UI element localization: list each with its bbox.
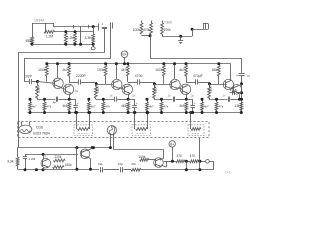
svg-text:2200P: 2200P <box>76 74 87 78</box>
svg-text:2G: 2G <box>74 89 79 93</box>
wire bottom feed <box>18 147 111 149</box>
svg-text:470: 470 <box>177 154 183 158</box>
svg-text:+: + <box>44 155 46 159</box>
svg-text:1a: 1a <box>132 94 136 98</box>
tick crossing 3 <box>88 25 90 29</box>
resistor 47k series <box>131 168 141 171</box>
transistor Tb <box>80 149 90 159</box>
wire collector Q1 <box>57 64 59 78</box>
wire top input <box>32 23 53 25</box>
svg-text:470k: 470k <box>143 28 150 32</box>
node input stage1 <box>36 80 39 83</box>
wire 220k to ground <box>162 34 164 37</box>
svg-text:B+: B+ <box>170 142 174 146</box>
terminal B+ bottom <box>169 141 175 147</box>
wire join <box>142 35 152 37</box>
wire drop b LDR3 lead <box>199 138 201 170</box>
resistor R8 220k vertical <box>162 21 164 23</box>
node on detector line <box>92 25 95 28</box>
svg-text:220k: 220k <box>164 28 171 32</box>
svg-text:+: + <box>136 102 138 106</box>
svg-text:100k: 100k <box>209 86 213 93</box>
wire output run <box>164 161 176 163</box>
tick end <box>98 23 100 30</box>
svg-text:B+: B+ <box>122 53 126 57</box>
wire Q5 emitter to Q6 base <box>178 88 183 90</box>
capacitor el lower stage2 <box>128 99 134 101</box>
LDR 1 <box>76 113 78 127</box>
svg-text:3.3k: 3.3k <box>7 160 14 164</box>
tick crossing 2 <box>80 27 82 45</box>
svg-text:47k: 47k <box>105 105 110 109</box>
wire outer feedback line <box>18 52 104 54</box>
svg-text:+: + <box>236 74 238 78</box>
svg-text:CDS: CDS <box>36 126 44 130</box>
svg-text:100k: 100k <box>155 68 163 72</box>
svg-text:1s: 1s <box>223 94 227 98</box>
wire rail corner to Q7 collector <box>230 64 232 81</box>
resistor base-gnd stage3 <box>153 87 156 99</box>
resistor R3 2.2M vertical <box>64 33 67 44</box>
capacitor el lower stage1 <box>69 99 75 101</box>
wire supply rail <box>47 63 231 65</box>
LDR sub-box 3 <box>188 125 204 136</box>
svg-text:1N34A: 1N34A <box>34 19 45 23</box>
wire lamp lead 2 run <box>114 149 164 151</box>
wire loop top right <box>192 29 208 31</box>
terminal oval <box>93 44 95 46</box>
svg-text:4k7: 4k7 <box>91 105 96 109</box>
node dots ground bus <box>64 43 67 46</box>
svg-text:4k7: 4k7 <box>62 68 68 72</box>
wire base stage3 <box>155 84 172 86</box>
resistor lower-a 4k7 stage3 <box>147 99 149 102</box>
svg-text:47k: 47k <box>163 105 168 109</box>
svg-text:4k7: 4k7 <box>149 105 154 109</box>
capacitor bypass stage1 <box>56 97 58 102</box>
svg-text:68k: 68k <box>212 68 218 72</box>
transistor Q8 <box>232 85 242 95</box>
stage 2 group <box>87 62 154 114</box>
node dots right column <box>240 82 243 85</box>
transistor Q2 <box>63 84 73 94</box>
wire corner to detector line <box>53 23 55 27</box>
resistor lower-a 4k7 stage2 <box>88 99 90 102</box>
wire mid rail <box>54 31 93 33</box>
wire emitter bus stage2 <box>96 99 115 101</box>
wire emitter bus stage4 <box>209 99 228 101</box>
wire bottom rail left <box>18 169 100 171</box>
resistor lower-b 47k stage4 <box>216 99 218 102</box>
svg-text:47k: 47k <box>131 162 136 166</box>
lamp <box>107 126 116 135</box>
svg-text:100k: 100k <box>154 86 158 93</box>
resistor bias 100k stage1 <box>45 62 48 65</box>
svg-text:45k: 45k <box>25 39 31 43</box>
capacitor bypass stage2 <box>114 97 116 102</box>
svg-text:100k: 100k <box>97 68 105 72</box>
wire emitter Q6 <box>186 94 188 99</box>
resistor lower-a 4k7 stage1 <box>30 99 32 102</box>
wire tap to B rail <box>150 36 152 59</box>
svg-text:10µ: 10µ <box>118 162 123 166</box>
svg-text:4k5: 4k5 <box>121 104 126 108</box>
svg-text:100k: 100k <box>95 86 99 93</box>
svg-text:1a: 1a <box>246 74 250 78</box>
svg-text:150k: 150k <box>65 163 72 167</box>
node A dot <box>31 43 34 46</box>
capacitor bypass stage3 <box>173 97 175 102</box>
resistor collector 4k7 stage1 <box>68 62 71 65</box>
svg-text:4700: 4700 <box>135 74 143 78</box>
resistor 100k bottom <box>140 158 149 161</box>
resistor lower-b 47k stage2 <box>103 99 105 102</box>
node tap dot <box>149 34 152 37</box>
resistor 470 b <box>190 160 199 163</box>
capacitor el lower stage3 <box>186 99 192 101</box>
svg-text:10µ: 10µ <box>98 162 103 166</box>
capacitor C2 plates <box>110 23 112 29</box>
capacitor input coupling <box>24 81 29 83</box>
svg-text:100k: 100k <box>133 28 141 32</box>
wire emitter Q2 <box>69 94 71 99</box>
wire bottom rail <box>28 112 242 114</box>
svg-text:1.2M: 1.2M <box>29 157 36 161</box>
wire emitter bus stage1 <box>37 99 56 101</box>
wire drop left of Tb <box>76 148 78 170</box>
terminal out small <box>206 160 210 164</box>
transistor Ta <box>41 158 51 168</box>
node input stage4 <box>208 83 211 86</box>
wire emitter Q8 <box>239 94 241 99</box>
capacitor bypass stage4 <box>228 97 230 102</box>
capacitor coupling stage2 <box>128 82 138 84</box>
wire ground bus top <box>32 44 93 46</box>
wire Q7 emitter to Q8 base <box>231 88 234 90</box>
svg-text:4k7: 4k7 <box>32 105 37 109</box>
svg-text:S2D3 7BD4: S2D3 7BD4 <box>33 131 50 135</box>
transistor Q4 <box>122 84 132 94</box>
wire Q1 emitter to Q2 base <box>61 88 66 90</box>
svg-text:470: 470 <box>190 154 196 158</box>
resistor lower-b 47k stage1 <box>44 99 46 102</box>
capacitor coupling stage3 <box>186 82 196 84</box>
resistor bias 100k stage2 <box>104 62 107 65</box>
resistor bias 68k stage4 <box>217 62 220 65</box>
svg-text:4k7: 4k7 <box>121 68 127 72</box>
transistor Q3 <box>112 79 122 89</box>
resistor base-gnd stage2 <box>94 87 97 99</box>
capacitor C3 electrolytic right <box>239 73 245 75</box>
svg-text:100k: 100k <box>38 68 46 72</box>
transistor Q1 <box>53 78 63 88</box>
svg-text:3.3K: 3.3K <box>85 36 93 40</box>
wire right drop <box>241 58 243 73</box>
svg-text:+: + <box>77 102 79 106</box>
wire output collector <box>240 84 241 86</box>
resistor 3.3k <box>17 148 19 157</box>
resistor 470 a <box>176 160 185 163</box>
svg-text:+: + <box>230 88 232 92</box>
resistor R1 45k vertical <box>32 23 34 37</box>
svg-text:100k: 100k <box>37 86 41 93</box>
dashed enclosure <box>18 122 210 138</box>
svg-text:1s: 1s <box>109 94 113 98</box>
transistor Tc <box>154 158 164 168</box>
node input stage3 <box>153 83 156 86</box>
wire inner feedback line <box>24 58 110 60</box>
resistor R2 1.2M horizontal <box>45 23 47 32</box>
transistor Q6 <box>180 84 190 94</box>
svg-text:1.2M: 1.2M <box>46 34 54 38</box>
wire emitter Q4 <box>128 94 130 99</box>
LDR sub-box 1 <box>74 125 93 136</box>
resistor R5 3.3K vertical <box>92 34 95 43</box>
capacitor 10u a <box>100 167 102 172</box>
svg-text:1µ: 1µ <box>53 100 57 104</box>
stage 3 group <box>146 62 210 114</box>
terminal B+ top <box>121 51 128 58</box>
ground symbol <box>179 35 182 38</box>
svg-text:O-1-: O-1- <box>225 171 233 175</box>
wire Q8 emitter to right <box>237 92 242 94</box>
wire base stage4 <box>210 84 227 86</box>
svg-text:220k: 220k <box>55 155 62 159</box>
resistor R7 470k vertical <box>151 21 153 23</box>
svg-text:+: + <box>194 102 196 106</box>
transistor Q5 <box>170 79 180 89</box>
capacitor 10u b <box>120 167 122 172</box>
tick crossing 1 <box>73 25 75 29</box>
resistor 220k <box>54 159 66 162</box>
resistor R4 vertical <box>74 33 77 44</box>
svg-text:100k: 100k <box>138 155 145 159</box>
node dots mid rail <box>64 30 67 33</box>
capacitor out el <box>232 91 234 95</box>
svg-text:4k7: 4k7 <box>204 105 209 109</box>
capacitor input bottom <box>25 155 27 157</box>
resistor emitter stage2 <box>127 102 130 111</box>
crystal plates <box>203 24 205 29</box>
wire base Ta Tb <box>25 154 78 156</box>
resistor emitter stage1 <box>68 102 71 111</box>
resistor collector 4k7 stage2 <box>126 62 129 65</box>
resistor base-gnd stage4 <box>208 87 211 99</box>
capacitor coupling stage1 <box>69 82 79 84</box>
resistor lower-a 4k7 stage4 <box>202 99 204 102</box>
resistor R6 100k vertical <box>141 21 143 23</box>
wire collector Q5 <box>174 64 176 80</box>
svg-text:4k5: 4k5 <box>62 104 67 108</box>
wire drop a <box>186 161 188 170</box>
svg-text:Y300: Y300 <box>164 21 172 25</box>
wire base stage1 <box>38 82 55 84</box>
LDR sub-box 2 <box>132 125 151 136</box>
wire emitter bus stage3 <box>154 99 173 101</box>
resistor lower-b 47k stage3 <box>161 99 163 102</box>
resistor bias 100k stage3 <box>162 62 165 65</box>
resistor emitter stage3 <box>185 102 188 111</box>
resistor base-gnd stage1 <box>36 84 39 98</box>
LDR 2 <box>134 113 136 130</box>
svg-text:1a: 1a <box>190 94 194 98</box>
svg-text:4k7: 4k7 <box>179 68 185 72</box>
wire emitter bus to right column <box>240 99 242 101</box>
node dot right <box>191 28 194 31</box>
wire collector Q3 <box>116 64 118 80</box>
svg-text:1s: 1s <box>168 94 172 98</box>
svg-text:+: + <box>101 23 103 27</box>
wire base stage2 <box>96 84 113 86</box>
resistor 150k <box>53 166 64 169</box>
wire riser <box>192 29 194 36</box>
transistor Q7 <box>223 79 233 89</box>
svg-text:13k: 13k <box>234 104 240 108</box>
svg-text:4k5: 4k5 <box>179 104 184 108</box>
stage 4 group <box>201 62 244 114</box>
LDR 3 <box>190 113 192 130</box>
resistor collector 4k7 stage3 <box>185 62 188 65</box>
svg-text:102P: 102P <box>24 74 33 78</box>
photocell CDS <box>19 125 32 133</box>
svg-text:47k: 47k <box>218 105 223 109</box>
svg-text:470µF: 470µF <box>193 74 203 78</box>
resistor emitter stage4 <box>240 102 243 111</box>
node input stage2 <box>95 83 98 86</box>
wire Q3 emitter to Q4 base <box>119 88 124 90</box>
svg-text:47k: 47k <box>46 105 51 109</box>
stage 1 group <box>29 62 97 114</box>
